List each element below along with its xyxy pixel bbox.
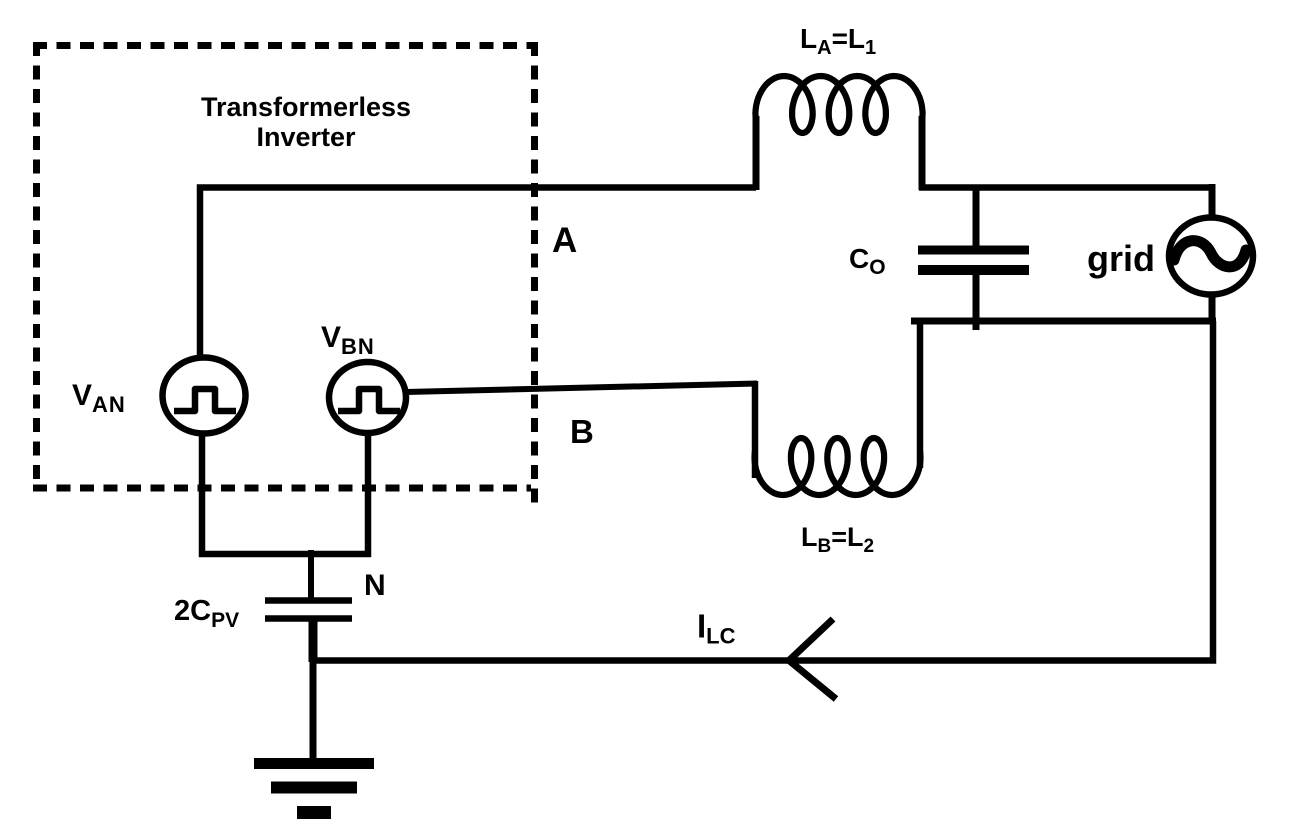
ground symbol bar 2 [271,782,357,794]
inductor LB = L2 coil [755,438,921,495]
wire: node A top rail and drop to VAN [200,188,756,361]
svg-text:Transformerless: Transformerless [201,92,411,122]
voltage source VBN circle [329,362,406,433]
VBN bottom lead [365,431,372,557]
ground lead [310,658,317,760]
capacitor CO top lead [973,187,980,247]
right return wire down and ILC wire [310,321,1213,661]
2CPV bottom lead (thick) [309,621,318,662]
capacitor 2CPV plates [265,597,352,604]
svg-text:N: N [364,569,386,602]
LA right lead [919,116,926,190]
ground symbol bar 3 [297,806,331,819]
2CPV top lead [308,550,314,598]
capacitor CO bottom lead [973,273,980,330]
inductor LA = L1 coil [755,76,922,133]
LA left lead [753,116,760,190]
svg-text:Inverter: Inverter [256,122,356,152]
joiner wire at node N [199,551,371,558]
wire node B: from VBN to LB [406,384,757,393]
VBN pulse glyph [338,389,400,411]
LB left lead [752,381,759,478]
svg-text:B: B [570,413,594,450]
grid source top lead [1209,184,1216,216]
wire: top rail from LA right lead to grid [919,184,1215,191]
grid source bottom lead [1209,295,1216,324]
svg-text:LA=L1: LA=L1 [800,23,876,59]
ground symbol bar 1 [254,758,374,769]
grid sine symbol [1174,241,1246,267]
svg-text:grid: grid [1087,238,1155,279]
capacitor CO plates [918,246,1029,255]
grid AC source circle [1169,218,1253,295]
voltage source VAN circle [163,358,246,434]
CO bottom rail [911,318,1216,325]
dashed box: Transformerless Inverter boundary [33,42,538,506]
svg-text:A: A [552,221,577,260]
svg-text:LB=L2: LB=L2 [801,522,874,557]
LB right lead [917,318,924,468]
current ILC arrow [789,619,836,699]
VAN bottom lead [199,431,206,557]
VAN pulse glyph [174,389,236,411]
